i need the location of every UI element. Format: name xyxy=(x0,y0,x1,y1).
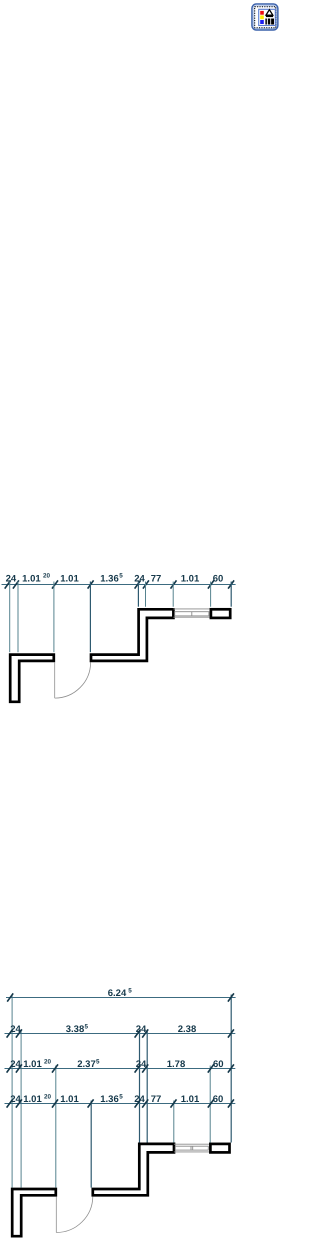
svg-text:5: 5 xyxy=(128,988,132,995)
svg-text:24: 24 xyxy=(134,1094,145,1105)
window inner line xyxy=(173,616,211,618)
tick xyxy=(52,1099,58,1107)
svg-text:2.38: 2.38 xyxy=(178,1024,197,1035)
svg-text:5: 5 xyxy=(85,1024,89,1031)
svg-text:24: 24 xyxy=(136,1059,147,1070)
extension line xyxy=(139,1031,141,1143)
svg-text:20: 20 xyxy=(44,1094,52,1101)
left L-shaped wall xyxy=(10,655,54,702)
left L-shaped wall xyxy=(12,1189,56,1236)
svg-text:1.01: 1.01 xyxy=(23,1094,42,1105)
tick xyxy=(88,1099,94,1107)
tick xyxy=(208,1064,214,1072)
window frame xyxy=(175,612,209,616)
icon letter-A glyph xyxy=(266,10,273,15)
tick xyxy=(228,1029,234,1037)
extension line xyxy=(145,582,147,607)
extension line xyxy=(210,582,212,607)
tick xyxy=(135,1099,141,1107)
dimension line xyxy=(5,1103,236,1105)
door swing arc xyxy=(55,662,91,698)
tick xyxy=(7,993,13,1001)
extension line xyxy=(146,1031,148,1143)
svg-text:60: 60 xyxy=(213,573,224,584)
icon crossbar xyxy=(266,16,273,18)
svg-text:1.01: 1.01 xyxy=(60,1094,79,1105)
tick xyxy=(142,1064,148,1072)
window outer line xyxy=(174,1143,210,1145)
svg-text:1.36: 1.36 xyxy=(100,1094,119,1105)
tick xyxy=(7,1099,13,1107)
door leaf xyxy=(54,662,56,698)
icon blue swatch xyxy=(260,20,264,24)
tick xyxy=(171,1099,177,1107)
extension line xyxy=(9,582,11,653)
tick xyxy=(228,993,234,1001)
extension line xyxy=(230,582,232,607)
window frame xyxy=(175,1146,208,1150)
extension line xyxy=(55,1066,57,1188)
svg-text:1.78: 1.78 xyxy=(167,1059,186,1070)
icon red swatch xyxy=(260,11,264,15)
tick xyxy=(7,1064,13,1072)
extension line xyxy=(89,582,91,653)
extension line xyxy=(137,582,139,607)
svg-text:6.24: 6.24 xyxy=(108,988,127,999)
dimension line xyxy=(2,584,236,586)
svg-text:20: 20 xyxy=(44,1059,52,1066)
icon bar 3 xyxy=(271,19,274,25)
svg-text:1.01: 1.01 xyxy=(181,1094,200,1105)
icon inner blue square xyxy=(259,9,276,25)
tick xyxy=(88,580,94,588)
extension line xyxy=(209,1066,211,1143)
tick xyxy=(135,1064,141,1072)
tick xyxy=(142,1099,148,1107)
svg-text:2.37: 2.37 xyxy=(77,1059,96,1070)
window outer line xyxy=(173,608,211,610)
icon bar 1 xyxy=(265,19,267,25)
tick xyxy=(228,1099,234,1107)
tick xyxy=(135,580,141,588)
svg-text:60: 60 xyxy=(213,1094,224,1105)
tick xyxy=(142,1029,148,1037)
icon yellow swatch xyxy=(260,15,264,19)
svg-text:24: 24 xyxy=(10,1059,21,1070)
svg-text:5: 5 xyxy=(96,1059,100,1066)
svg-text:24: 24 xyxy=(10,1094,21,1105)
icon dashed selection square xyxy=(255,7,276,28)
svg-text:77: 77 xyxy=(151,573,162,584)
window mullion xyxy=(190,1146,192,1150)
right wall segment xyxy=(210,1144,229,1153)
middle stepped wall xyxy=(93,1144,174,1195)
extension line xyxy=(172,582,174,607)
tick xyxy=(52,580,58,588)
svg-text:24: 24 xyxy=(134,573,145,584)
door leaf xyxy=(55,1197,57,1233)
extension line xyxy=(17,582,19,653)
icon bar 2 xyxy=(268,19,270,25)
tick xyxy=(16,1029,22,1037)
svg-text:1.36: 1.36 xyxy=(100,573,119,584)
middle stepped wall xyxy=(91,609,173,661)
window inner line xyxy=(174,1151,210,1153)
svg-text:5: 5 xyxy=(119,1094,123,1101)
extension line xyxy=(53,582,55,653)
svg-text:1.01: 1.01 xyxy=(23,1059,42,1070)
extension line xyxy=(173,1101,175,1143)
icon outer rounded frame xyxy=(252,4,278,30)
svg-text:24: 24 xyxy=(6,573,17,584)
svg-text:24: 24 xyxy=(10,1024,21,1035)
svg-text:1.01: 1.01 xyxy=(22,573,41,584)
tick xyxy=(52,1064,58,1072)
svg-text:24: 24 xyxy=(136,1024,147,1035)
svg-text:60: 60 xyxy=(213,1059,224,1070)
tick xyxy=(228,580,234,588)
tick xyxy=(16,1099,22,1107)
tick xyxy=(16,1064,22,1072)
door swing arc xyxy=(56,1197,93,1233)
tick xyxy=(135,1029,141,1037)
tick xyxy=(5,580,11,588)
tick xyxy=(171,580,177,588)
right wall segment xyxy=(211,609,230,618)
dimension line xyxy=(6,997,236,999)
tick xyxy=(208,1099,214,1107)
svg-text:1.01: 1.01 xyxy=(60,573,79,584)
svg-text:1.01: 1.01 xyxy=(181,573,200,584)
window mullion xyxy=(191,612,193,616)
embedded object icon xyxy=(252,4,278,30)
window mullion 2 xyxy=(192,1146,194,1150)
extension line xyxy=(230,995,232,1143)
extension line xyxy=(20,1031,22,1188)
svg-text:3.38: 3.38 xyxy=(66,1024,85,1035)
svg-text:5: 5 xyxy=(119,572,123,579)
tick xyxy=(13,580,19,588)
svg-text:77: 77 xyxy=(151,1094,162,1105)
tick xyxy=(143,580,149,588)
dimension line xyxy=(5,1033,236,1035)
extension line xyxy=(90,1101,92,1188)
tick xyxy=(7,1029,13,1037)
tick xyxy=(208,580,214,588)
svg-text:20: 20 xyxy=(43,572,51,579)
extension line xyxy=(11,995,13,1188)
dimension line xyxy=(5,1068,236,1070)
tick xyxy=(228,1064,234,1072)
